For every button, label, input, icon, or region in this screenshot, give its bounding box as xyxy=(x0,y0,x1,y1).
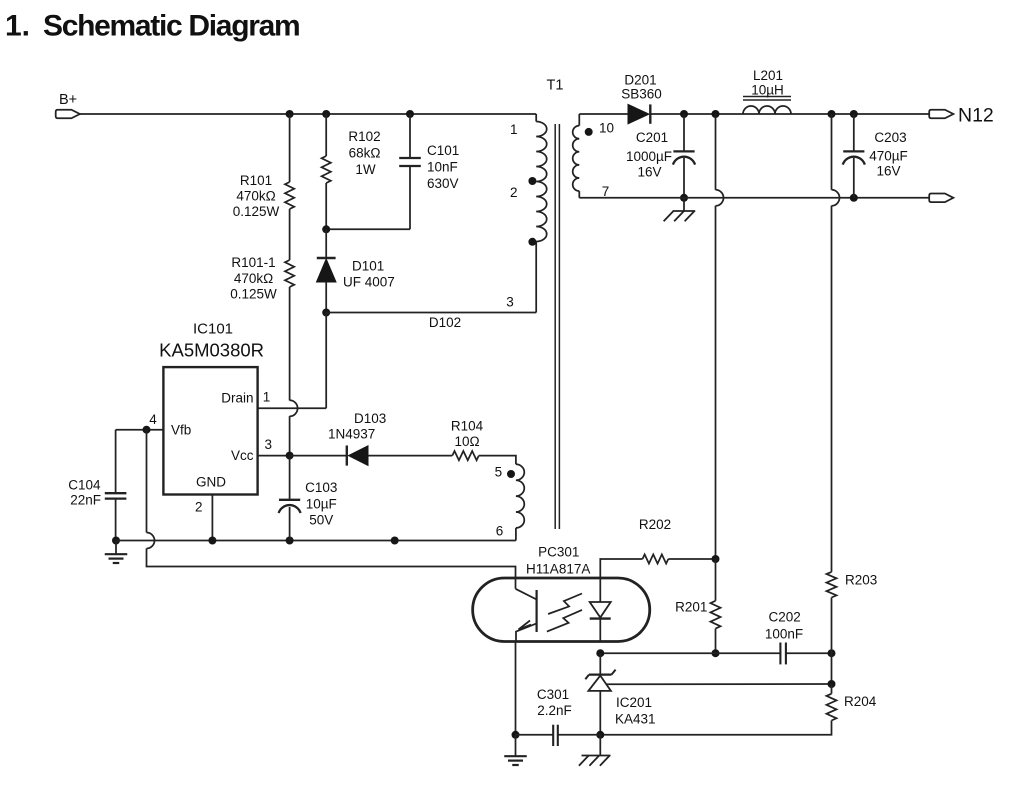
terminal B+ xyxy=(56,110,80,119)
shunt regulator IC201 KA431 xyxy=(599,653,601,674)
node R102/C101/D101 xyxy=(322,225,330,233)
resistor R104 xyxy=(452,451,479,460)
diode D201 xyxy=(628,104,649,123)
svg-text:D102: D102 xyxy=(429,315,461,330)
node C201 bottom xyxy=(680,194,688,202)
svg-text:KA431: KA431 xyxy=(615,712,656,727)
PC301 phototransistor xyxy=(535,590,537,632)
node R201 bottom xyxy=(712,649,720,657)
resistor R102 xyxy=(325,114,327,156)
capacitor C203 xyxy=(853,114,855,151)
svg-text:UF 4007: UF 4007 xyxy=(343,275,395,290)
svg-text:GND: GND xyxy=(196,475,226,490)
diode D101 xyxy=(325,229,327,258)
node PC301 emitter/C301 xyxy=(512,731,520,739)
node C104/ground rail xyxy=(112,537,120,545)
svg-text:R102: R102 xyxy=(348,129,380,144)
svg-text:470µF: 470µF xyxy=(869,149,908,164)
wire drain riser xyxy=(325,313,327,409)
op-amp/controller IC101 KA5M0380R xyxy=(163,367,257,494)
node R203 line top xyxy=(828,110,836,118)
wire Vcc pin (pin 3) xyxy=(258,455,290,457)
svg-text:1: 1 xyxy=(263,390,271,405)
svg-text:2: 2 xyxy=(510,185,518,200)
svg-text:Vfb: Vfb xyxy=(171,423,191,438)
svg-text:C101: C101 xyxy=(427,143,459,158)
svg-text:2: 2 xyxy=(195,500,203,515)
resistor R203 xyxy=(827,572,837,598)
svg-text:N12: N12 xyxy=(958,105,994,127)
node C103/rail xyxy=(286,537,294,545)
resistor R202 xyxy=(643,554,669,563)
svg-text:100nF: 100nF xyxy=(765,627,803,642)
svg-text:R101: R101 xyxy=(240,173,272,188)
node C203 top xyxy=(850,110,858,118)
svg-text:50V: 50V xyxy=(309,513,333,528)
svg-text:3: 3 xyxy=(265,437,273,452)
svg-text:D201: D201 xyxy=(624,72,656,87)
transformer T1 aux winding xyxy=(516,464,524,528)
node B+/R101 xyxy=(286,110,294,118)
svg-text:16V: 16V xyxy=(637,165,661,180)
wire node to T1 pin 3 (D102) xyxy=(326,312,536,314)
svg-text:C203: C203 xyxy=(874,130,906,145)
wire C101/R102 junction xyxy=(326,228,410,230)
node GND pin/rail xyxy=(208,537,216,545)
svg-text:2.2nF: 2.2nF xyxy=(537,703,572,718)
svg-text:10µF: 10µF xyxy=(306,497,337,512)
svg-text:10nF: 10nF xyxy=(427,160,458,175)
svg-text:4: 4 xyxy=(149,412,157,427)
wire T1 pin 10 to D201 xyxy=(579,113,628,115)
wire GND pin (pin 2) xyxy=(211,495,213,541)
svg-text:R204: R204 xyxy=(844,694,877,709)
node R202/R201 xyxy=(712,555,720,563)
svg-text:R104: R104 xyxy=(451,419,484,434)
ground (IC201, slanted) xyxy=(599,735,601,755)
node R201 line top xyxy=(712,110,720,118)
svg-text:R203: R203 xyxy=(845,573,877,588)
wire R101-1 to Vcc pin (hops drain wire) xyxy=(289,287,291,401)
wire PC301 cathode to C202 xyxy=(600,652,780,654)
capacitor C201 xyxy=(683,114,685,151)
node Vfb xyxy=(143,426,151,434)
ground (C301 left) xyxy=(515,735,517,756)
svg-text:1.: 1. xyxy=(5,10,30,43)
svg-text:KA5M0380R: KA5M0380R xyxy=(159,340,264,361)
svg-text:470kΩ: 470kΩ xyxy=(234,271,273,286)
svg-text:5: 5 xyxy=(495,465,503,480)
node T1 primary phase dot xyxy=(528,238,536,246)
svg-text:68kΩ: 68kΩ xyxy=(349,146,381,161)
node B+/C101 xyxy=(406,110,414,118)
svg-text:1: 1 xyxy=(510,122,518,137)
wire R204 bottom to IC201 anode xyxy=(600,721,831,735)
svg-text:Schematic Diagram: Schematic Diagram xyxy=(43,10,299,43)
svg-text:Drain: Drain xyxy=(221,391,253,406)
svg-text:T1: T1 xyxy=(547,78,564,94)
svg-text:6: 6 xyxy=(496,524,504,539)
wire N12 rail to R202/R201 (hops return rail) xyxy=(715,114,717,190)
resistor R204 xyxy=(831,684,833,694)
wire R104 to T1 pin 5 xyxy=(479,456,516,465)
svg-text:C104: C104 xyxy=(68,478,101,493)
wire Vfb pin (pin 4) xyxy=(116,429,164,431)
svg-text:L201: L201 xyxy=(753,68,783,83)
node D101/drain/T1 pin3 xyxy=(322,309,330,317)
resistor R101-1 xyxy=(289,209,291,260)
optocoupler PC301 body xyxy=(473,578,650,642)
node B+/R102 xyxy=(322,110,330,118)
wire Drain pin xyxy=(258,407,327,409)
wire primary ground rail xyxy=(116,540,516,542)
svg-text:0.125W: 0.125W xyxy=(230,287,277,302)
svg-text:PC301: PC301 xyxy=(538,545,579,560)
node T1 aux phase dot xyxy=(507,470,515,478)
svg-text:10: 10 xyxy=(599,121,614,136)
wire D201 to N12 rail xyxy=(650,113,929,115)
capacitor C301 xyxy=(516,734,554,736)
wire IC201 ref to R204 top xyxy=(831,653,833,684)
svg-text:0.125W: 0.125W xyxy=(233,204,280,219)
ground (C201, slanted) xyxy=(683,198,685,211)
svg-text:3: 3 xyxy=(506,295,514,310)
node T1 secondary phase dot xyxy=(585,128,593,136)
transformer T1 secondary winding xyxy=(578,114,580,126)
svg-text:16V: 16V xyxy=(876,164,900,179)
transformer T1 core xyxy=(554,124,556,529)
svg-text:1W: 1W xyxy=(355,162,376,177)
capacitor C202 xyxy=(779,643,781,665)
PC301 LED xyxy=(599,578,601,602)
svg-text:7: 7 xyxy=(602,184,610,199)
ground (C104) xyxy=(115,541,117,554)
node rail tap xyxy=(391,537,399,545)
diode D103 xyxy=(290,455,347,457)
svg-text:630V: 630V xyxy=(427,176,459,191)
inductor L201 xyxy=(743,106,791,114)
resistor R101 xyxy=(289,114,291,182)
wire B+ rail xyxy=(80,113,536,115)
svg-text:IC101: IC101 xyxy=(193,321,233,338)
svg-text:R101-1: R101-1 xyxy=(231,255,275,270)
svg-text:C301: C301 xyxy=(537,687,569,702)
terminal return xyxy=(929,194,953,203)
PC301 light arrows xyxy=(548,594,582,615)
svg-text:C103: C103 xyxy=(305,480,337,495)
capacitor C101 xyxy=(409,114,411,158)
svg-text:470kΩ: 470kΩ xyxy=(236,189,275,204)
svg-text:D103: D103 xyxy=(354,411,386,426)
capacitor C103 xyxy=(289,456,291,500)
svg-text:1000µF: 1000µF xyxy=(626,149,672,164)
svg-text:SB360: SB360 xyxy=(621,87,662,102)
svg-text:22nF: 22nF xyxy=(70,493,101,508)
svg-text:C202: C202 xyxy=(769,610,801,625)
node R203/R204/ref xyxy=(828,680,836,688)
node C201 top xyxy=(680,110,688,118)
svg-text:R202: R202 xyxy=(639,517,671,532)
svg-text:B+: B+ xyxy=(59,92,77,108)
node T1 pin 2 tap xyxy=(528,177,536,185)
transformer T1 primary winding xyxy=(535,114,537,122)
wire PC301 emitter down xyxy=(515,642,517,735)
svg-text:Vcc: Vcc xyxy=(231,448,254,463)
wire PC301 anode to R202 xyxy=(600,559,642,578)
svg-text:1N4937: 1N4937 xyxy=(328,427,375,442)
wire N12 rail to R203 (hops return rail) xyxy=(831,114,833,190)
node IC201 anode/C301 xyxy=(596,731,604,739)
wire Vfb to PC301 collector (hops ground rail) xyxy=(146,430,148,533)
svg-text:R201: R201 xyxy=(675,600,707,615)
svg-text:10µH: 10µH xyxy=(751,83,784,98)
resistor R201 xyxy=(715,559,717,601)
wire secondary return rail xyxy=(579,197,929,199)
svg-text:C201: C201 xyxy=(636,130,668,145)
capacitor C104 xyxy=(115,430,117,494)
node Vcc xyxy=(286,452,294,460)
node PC301 cathode/IC201 xyxy=(596,649,604,657)
node C203 bottom xyxy=(850,194,858,202)
svg-text:H11A817A: H11A817A xyxy=(526,562,590,577)
svg-text:10Ω: 10Ω xyxy=(454,434,479,449)
terminal N12 xyxy=(929,110,953,119)
svg-text:IC201: IC201 xyxy=(616,695,652,710)
svg-text:D101: D101 xyxy=(352,259,384,274)
node C202/R203 xyxy=(828,649,836,657)
